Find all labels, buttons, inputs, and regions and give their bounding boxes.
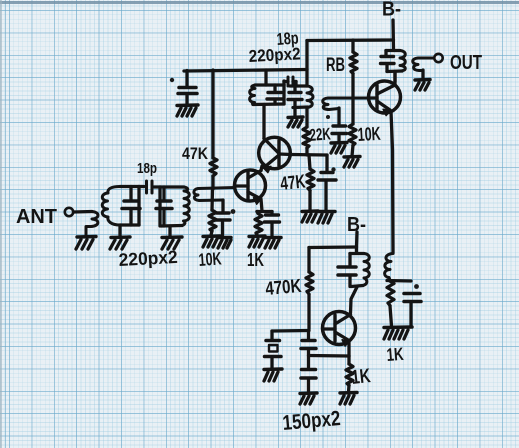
label 220px2 bottom [118,247,178,270]
dot near emitter cap [414,284,419,289]
ground under bias cap [318,212,335,224]
svg-text:B-: B- [382,0,401,21]
resistor 47K (first, from rail to Q2 base line) label [182,144,209,163]
capacitor bypass top-left [178,71,197,105]
capacitor at Q2 base to ground [216,213,231,235]
ground under bypass cap [177,105,198,116]
wire Q4 emitter down [347,341,350,356]
ground under 10K [203,236,220,247]
wire secondary bottom to cap [337,108,340,125]
resistor 10K (Q2 base to ground) [209,189,216,235]
wire Q2 collector up to Q1 emitter [261,166,262,171]
label 1K right [386,344,404,365]
label OUT [450,52,482,74]
label 10K mid [357,124,381,146]
svg-text:ANT: ANT [16,206,57,228]
capacitor 18p coupling (label) [137,160,157,177]
svg-text:22K: 22K [309,124,332,144]
wire bias junction to decoupling cap [325,155,328,171]
ANT label [16,206,57,228]
wire junction to right cap [387,279,411,283]
svg-text:47K: 47K [279,171,306,195]
capacitor at bias junction [318,173,336,211]
svg-text:220px2: 220px2 [248,44,301,66]
wire tank L2 to ground [168,226,171,236]
transistor Q2 [235,170,266,204]
transistor Q4 oscillator [323,312,356,347]
ground under secondary cap [331,143,347,154]
capacitor 18p coupling plates [139,181,160,193]
IF T2 secondary winding [323,98,369,110]
svg-text:OUT: OUT [450,52,482,74]
capacitor 150p upper [301,331,316,369]
dot near bypass cap [170,78,174,82]
tuned tank L2 [156,187,189,226]
wire B- down to output transformer [391,20,395,50]
ground under 1K [249,236,265,247]
ground wide bottom right [384,327,412,339]
svg-text:150px2: 150px2 [282,407,342,435]
ground under trimmer [264,369,282,381]
node B- second label [347,214,366,236]
dot near bias cap [331,167,335,171]
wire vertical rail join x=307 [305,41,308,87]
wire Q1 base to bias junction [291,153,327,157]
terminal OUT [434,54,442,62]
IF transformer T1 primary tank [250,85,284,105]
ground under T3 secondary [415,80,430,91]
label 220px2 top [248,44,301,66]
transistor Q3 output [369,81,401,116]
tuned tank L1 (antenna coil + cap) [102,187,140,226]
wire 470K bottom to Q4 base junction [307,295,310,330]
ground under ANT coil [76,237,96,250]
wire 470K top [307,248,310,273]
capacitor coupling T1-T2 (top, vertical plates) [284,77,297,86]
label RB [326,55,345,76]
svg-text:18p: 18p [137,160,157,177]
resistor 1K (Q4 emitter) [346,356,353,392]
IF transformer T2 primary tank [288,86,313,116]
transistor Q1 [259,137,291,172]
wire Q4 base junction left [272,329,309,333]
node B- top label [382,0,401,21]
coil ANT coupling [86,212,98,237]
wire top rail left (y=70) [184,70,307,72]
wire ANT to coupling coil [74,210,93,214]
svg-text:10K: 10K [198,248,222,270]
resistor 1K emitter load [387,281,394,326]
label 1K (Q4) [350,365,372,389]
resistor 22K [303,127,310,148]
resistor 1K (Q2 emitter) [255,212,262,236]
wire link bottom line down to cap [221,200,224,212]
trimmer capacitor left branch [265,331,282,368]
wire T4 bottom to Q4 collector [351,287,358,313]
label 470K [265,276,303,300]
svg-text:1K: 1K [350,365,372,389]
wire emitter junction to caps midpoint [309,354,350,358]
oscillator transformer T4 [338,254,369,287]
resistor RB [350,40,357,98]
ground under tank L1 [110,237,130,249]
capacitor 150p lower [301,370,316,393]
wire T2 bottom down to 22K [305,108,308,128]
label 18p top [276,29,299,49]
dot under secondary [326,115,330,119]
svg-text:220px2: 220px2 [118,247,178,270]
junction bar at Q2 emitter [257,210,272,213]
ground under 47K second [302,211,318,222]
wire Q3 emitter long vertical [391,111,393,253]
svg-text:47K: 47K [182,144,209,163]
label 10K bottom [198,248,222,270]
resistor 47K zigzag [210,158,217,176]
wire top rail right (y=40) [307,38,394,42]
ground under tank L2 [162,237,182,249]
wire Q2 emitter down [261,199,262,211]
svg-text:470K: 470K [265,276,303,300]
wire T3 bottom to Q3 collector [393,72,396,82]
ground under T2 cap [288,117,303,127]
wire B- to oscillator transformer [355,232,359,253]
svg-text:RB: RB [326,55,345,76]
label 22K [309,124,332,144]
T3 secondary winding [413,58,433,71]
resistor 47K second (Q1 base to ground) [307,155,314,210]
wire B- branch to 470K [309,245,357,249]
ground under 150p chain [300,393,317,404]
resistor 470K [306,272,313,294]
wire tank L1 to ground [118,225,121,236]
ground under Q4 1K [340,393,357,405]
label 1K bottom [247,250,264,270]
ground under Q2 emitter cap [265,238,281,249]
emitter load coil [385,254,393,282]
wire rail to T1 top [264,70,267,85]
wire 22K to bias junction [305,148,308,155]
capacitor at Q2 emitter [265,212,280,236]
wire coil to resistor junction [389,278,390,281]
wire tank IF1 down to Q1 collector [262,105,265,139]
coupling link winding to Q2 base (top line) [194,188,235,201]
svg-text:1K: 1K [386,344,404,365]
dot near Q2 base cap [231,209,236,214]
resistor 10K (OUT stage bias) [349,98,356,156]
terminal ANT [65,208,73,216]
ground under Q2 base cap [218,238,231,249]
wire 47K top [211,70,214,158]
wire Q3 collector to output transformer [393,72,396,85]
output transformer T3 primary [381,51,406,72]
label 47K second [279,171,306,195]
svg-text:1K: 1K [247,250,264,270]
label 150px2 [282,407,342,435]
svg-text:10K: 10K [357,124,381,146]
capacitor secondary bypass [332,126,347,142]
wire T3 secondary to ground [421,70,424,79]
ground under 10K mid [344,157,360,168]
capacitor emitter bypass [404,294,421,327]
wire 47K bottom to base junction [211,176,214,189]
